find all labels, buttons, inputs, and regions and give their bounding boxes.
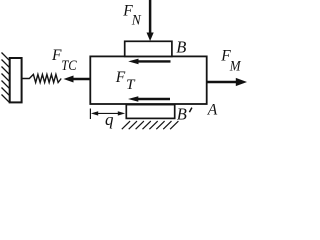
friction arrow upper (128, 59, 170, 65)
label F_M (220, 47, 242, 74)
svg-text:q: q (105, 110, 114, 129)
label q (105, 110, 114, 129)
block B (125, 41, 172, 56)
label F_N (122, 2, 142, 28)
wall (10, 58, 22, 102)
dimension q arrow (91, 111, 125, 115)
svg-text:TC: TC (61, 58, 77, 74)
svg-text:N: N (131, 12, 142, 28)
svg-text:T: T (126, 77, 135, 93)
label F_TC (51, 47, 77, 74)
label B' (177, 105, 192, 124)
svg-text:F: F (115, 69, 126, 86)
svg-text:A: A (207, 101, 218, 118)
label B (176, 38, 186, 57)
force F_TC arrow (64, 76, 91, 83)
wall hatching (2, 53, 10, 103)
svg-text:M: M (229, 58, 242, 74)
svg-text:B: B (177, 105, 187, 124)
node A label (207, 101, 218, 118)
plank (main block) (90, 56, 206, 104)
force F_N arrow (147, 0, 154, 41)
force F_M arrow (207, 78, 247, 86)
friction arrow lower (128, 96, 170, 102)
block B' (126, 105, 174, 119)
svg-text:B: B (176, 38, 186, 57)
dimension extension tick (89, 109, 91, 120)
ground hatching (122, 121, 179, 129)
spring (22, 74, 62, 82)
label F_T (115, 69, 136, 93)
